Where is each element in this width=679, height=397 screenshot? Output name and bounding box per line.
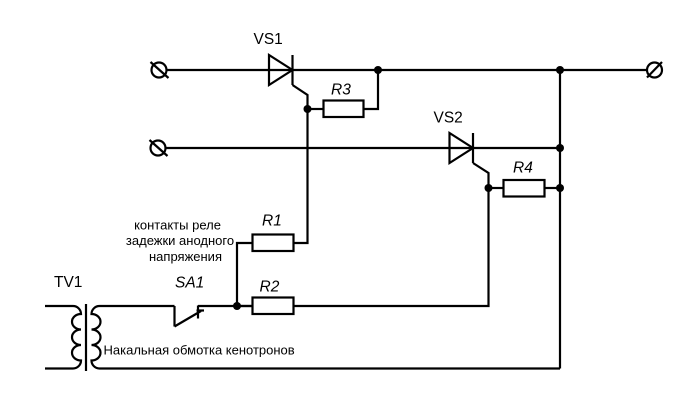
svg-text:контакты реле: контакты реле <box>134 218 221 233</box>
wire R2 left lead <box>237 305 253 307</box>
wire R1 left lead down to switch row <box>237 243 253 306</box>
resistor R4 <box>504 180 545 197</box>
junction node A (VS1 gate / R3 / R1) <box>304 105 312 113</box>
wire R3 left lead from node A <box>308 108 324 110</box>
terminal X1 (top-left input) <box>151 62 169 78</box>
wire bottom row: transformer secondary bottom to right bus <box>100 367 561 369</box>
terminal X2 (second-row input) <box>150 140 168 156</box>
svg-text:Накальная обмотка кенотронов: Накальная обмотка кенотронов <box>104 342 295 357</box>
thyristor VS1 <box>269 55 308 109</box>
junction SA1 / R1 / R2 <box>233 302 241 310</box>
wire R2 right lead up to VS2 gate node <box>294 188 489 306</box>
wire transformer secondary top to SA1 <box>100 305 175 307</box>
svg-text:R1: R1 <box>262 212 282 229</box>
svg-text:VS2: VS2 <box>434 110 463 127</box>
switch SA1 (relay contact) <box>175 306 205 327</box>
junction R3 top on first row <box>374 66 382 74</box>
wire R4 right lead <box>545 187 561 189</box>
resistor R2 <box>253 298 294 315</box>
wire top row: X1 to X3 through VS1 <box>167 69 648 71</box>
svg-text:напряжения: напряжения <box>149 249 222 264</box>
junction right bus on second row <box>556 144 564 152</box>
terminal X3 (right output) <box>647 62 662 78</box>
svg-text:задежки анодного: задежки анодного <box>126 233 234 248</box>
junction right bus on first row <box>556 66 564 74</box>
wire second row: X2 to output node through VS2 <box>166 147 561 149</box>
transformer TV1 core <box>85 304 87 371</box>
svg-text:R3: R3 <box>331 82 351 99</box>
transformer TV1 secondary winding <box>92 306 101 369</box>
transformer TV1 primary winding <box>45 306 81 369</box>
wire vertical from node A (VS1 gate) down to R1 <box>294 109 308 243</box>
svg-text:R2: R2 <box>260 279 280 296</box>
svg-text:TV1: TV1 <box>54 274 82 291</box>
svg-text:R4: R4 <box>513 160 533 177</box>
wire R3 right lead up to top row <box>364 70 379 109</box>
thyristor VS2 <box>450 133 489 188</box>
junction node B (VS2 gate / R4 / R2) <box>485 184 493 192</box>
svg-text:SA1: SA1 <box>175 275 204 292</box>
junction R4 right on bus <box>556 184 564 192</box>
svg-text:VS1: VS1 <box>254 31 283 48</box>
wire output vertical right bus <box>559 70 561 369</box>
wire switch SA1 to R2 <box>198 305 253 307</box>
resistor R1 <box>253 235 294 252</box>
resistor R3 <box>324 101 364 118</box>
wire R4 left lead <box>489 187 504 189</box>
